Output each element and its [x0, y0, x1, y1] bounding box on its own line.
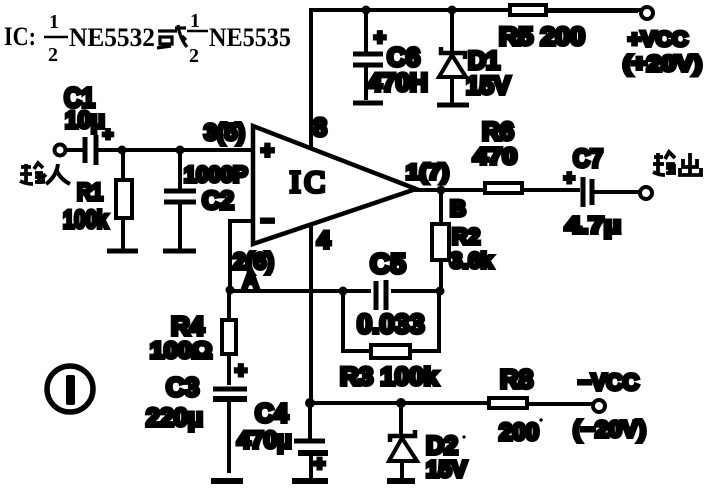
svg-text:220μ: 220μ — [146, 404, 203, 432]
pin label 1(7) — [406, 161, 449, 184]
svg-text:3.6k: 3.6k — [450, 248, 494, 273]
node junction top rail C6 — [362, 6, 371, 15]
svg-text:C6: C6 — [387, 42, 420, 72]
terminal output — [594, 187, 652, 199]
node junction R1 — [118, 146, 127, 155]
svg-text:100Ω: 100Ω — [150, 337, 212, 363]
svg-text:10μ: 10μ — [65, 107, 105, 134]
capacitor C4 470u — [237, 398, 328, 481]
wire op-amp output — [415, 188, 484, 192]
pin label 8 — [313, 114, 327, 142]
wire op-amp pin 4 vertical — [309, 224, 313, 403]
svg-text:−: − — [261, 208, 274, 233]
figure number circled 1 — [47, 366, 93, 412]
svg-text:NE5532: NE5532 — [69, 23, 155, 52]
resistor R1 100k — [63, 150, 138, 251]
svg-text:R6: R6 — [482, 118, 514, 146]
capacitor C2 1000P — [163, 150, 248, 251]
svg-text:4.7μ: 4.7μ — [565, 212, 621, 238]
svg-text:2: 2 — [48, 44, 58, 66]
terminal input — [55, 145, 84, 156]
svg-text:200: 200 — [499, 419, 539, 446]
svg-text:15V: 15V — [426, 456, 468, 482]
capacitor C6 — [353, 27, 428, 103]
pin label 2(6) — [233, 248, 274, 274]
node junction feedback left — [339, 287, 348, 296]
resistor R2 3.6k — [432, 190, 494, 291]
svg-text:C2: C2 — [202, 187, 234, 215]
svg-text:3(5): 3(5) — [204, 119, 245, 145]
capacitor C3 220u — [146, 360, 247, 481]
svg-text:100k: 100k — [63, 206, 108, 234]
node junction feedback right / R2 bottom — [436, 287, 445, 296]
svg-text:+: + — [374, 27, 386, 49]
terminal -VCC — [527, 369, 646, 442]
svg-text:B: B — [450, 196, 466, 221]
svg-text:C7: C7 — [573, 145, 603, 173]
svg-text:C4: C4 — [255, 398, 289, 428]
resistor R5 — [499, 5, 585, 51]
svg-text:R3 100k: R3 100k — [340, 363, 438, 391]
node junction output B — [437, 186, 466, 222]
capacitor C5 0.033 — [357, 248, 425, 339]
resistor R4 100ohm — [150, 290, 236, 385]
svg-text:(−20V): (−20V) — [573, 416, 646, 442]
wire node A feedback horizontal — [230, 289, 440, 293]
svg-text:470H: 470H — [368, 69, 428, 97]
pin label 4 — [317, 227, 331, 254]
svg-text:1(7): 1(7) — [406, 161, 449, 184]
svg-text:2: 2 — [189, 45, 199, 67]
svg-text:IC: IC — [290, 164, 329, 199]
diode D2 (zener 15V) — [387, 403, 468, 482]
svg-text:15V: 15V — [466, 72, 511, 100]
svg-text:D1: D1 — [468, 47, 500, 75]
svg-text:1000P: 1000P — [184, 162, 248, 187]
resistor R8 200 — [489, 364, 543, 446]
svg-text:+: + — [235, 360, 247, 382]
capacitor C1 10u — [64, 82, 113, 165]
svg-text:R5 200: R5 200 — [499, 23, 585, 51]
svg-text:470: 470 — [473, 143, 517, 169]
title IC: 1/2 NE5532 or 1/2 NE5535 — [4, 10, 291, 67]
wire C1 to op-amp plus input — [98, 148, 253, 152]
wire op-amp pin 8 vertical — [309, 8, 313, 149]
svg-text:−VCC: −VCC — [578, 369, 639, 395]
label input chinese (shu ru) — [20, 163, 70, 184]
terminal +VCC — [546, 7, 702, 76]
node junction bottom wire pin4 — [305, 398, 315, 408]
svg-text:R2: R2 — [452, 224, 480, 249]
node junction C2 — [176, 146, 185, 155]
wire top rail — [311, 8, 642, 12]
wire R6 to C7 — [522, 188, 580, 192]
node junction top rail D1 — [448, 6, 457, 15]
svg-text:R1: R1 — [77, 179, 103, 206]
svg-text:C3: C3 — [166, 372, 199, 402]
capacitor C7 4.7u — [564, 145, 621, 238]
wire op-amp minus input to node A — [230, 221, 253, 288]
svg-text:C5: C5 — [370, 248, 406, 279]
svg-text:1: 1 — [49, 11, 59, 33]
label output chinese (shu chu) — [653, 152, 701, 175]
svg-text:A: A — [243, 269, 258, 292]
label huo (or) chinese char — [157, 25, 187, 48]
resistor R3 100k loop — [340, 291, 439, 391]
svg-text:R8: R8 — [500, 364, 533, 394]
svg-text:(+20V): (+20V) — [623, 51, 702, 76]
svg-text:+: + — [314, 454, 325, 475]
svg-text:4: 4 — [317, 227, 331, 254]
node A — [226, 269, 259, 295]
op-amp U1 (IC, NE5532/NE5535) — [253, 126, 416, 244]
svg-text:+VCC: +VCC — [628, 28, 688, 51]
svg-text:1: 1 — [190, 10, 200, 32]
diode D1 (zener 15V) — [437, 10, 511, 105]
wire bottom rail — [310, 401, 489, 405]
pin label 3(5) — [204, 119, 245, 145]
resistor R6 470 — [473, 118, 522, 193]
node junction bottom wire D2 — [396, 398, 406, 408]
svg-text:470μ: 470μ — [237, 427, 292, 454]
svg-text:IC:: IC: — [4, 22, 36, 51]
svg-text:NE5535: NE5535 — [209, 23, 291, 52]
svg-text:+: + — [261, 138, 274, 163]
wire C6 branch — [364, 10, 368, 100]
svg-text:8: 8 — [313, 114, 327, 142]
svg-text:0.033: 0.033 — [357, 309, 425, 339]
